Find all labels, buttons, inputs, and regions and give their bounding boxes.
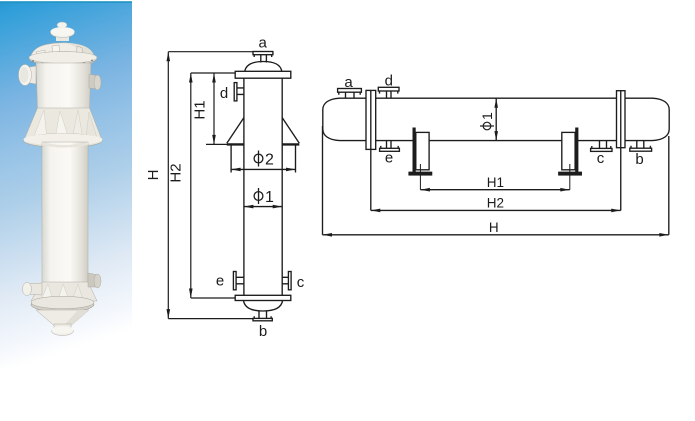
nozzle d flange [378, 87, 399, 91]
dim H1 vertical [213, 73, 215, 144]
dim H1 line [420, 189, 569, 191]
dim H2 bottom connector [191, 297, 235, 299]
nozzle d flange bar [234, 83, 237, 101]
nozzle c flange [591, 148, 612, 151]
flange bolt dots [32, 60, 93, 66]
dim H right extension [668, 136, 670, 235]
arrow phi1 right [273, 205, 283, 209]
arrow H2 top [189, 73, 193, 83]
top dome [245, 62, 282, 72]
svg-text:d: d [385, 73, 393, 90]
left saddle centerline [419, 164, 421, 190]
nozzle a flange [338, 89, 362, 93]
right saddle panel [562, 132, 575, 169]
nozzle b flange [253, 318, 272, 320]
svg-text:2: 2 [265, 152, 274, 169]
dome head [30, 43, 95, 60]
photo background [0, 1, 132, 368]
cone bottom rim [24, 134, 103, 148]
cone ribs [33, 110, 47, 139]
phi2 extension lines [231, 146, 295, 173]
dim H1 bottom extension to cone [206, 143, 227, 145]
arrow H2 right [611, 209, 621, 213]
shell bottom [340, 140, 653, 142]
svg-text:1: 1 [265, 189, 274, 206]
left saddle baseplate [409, 172, 432, 175]
svg-text:H1: H1 [191, 100, 208, 119]
nozzle c stem [282, 277, 288, 284]
arrow H1 right [560, 188, 570, 192]
label phi1 right rotated [479, 112, 495, 130]
arrow H1 left [420, 188, 430, 192]
phi1 dim line [244, 206, 282, 208]
arrow H1 top [212, 73, 216, 83]
body walls [244, 78, 282, 295]
arrow H2 bottom [189, 289, 193, 299]
svg-text:a: a [259, 35, 268, 52]
dim H2 line [371, 209, 621, 211]
dim H2 top connector [191, 72, 235, 74]
svg-text:H: H [145, 170, 162, 181]
top cap flange [56, 33, 69, 41]
nozzle b flange [630, 148, 652, 151]
cone right bottom rim [282, 143, 299, 145]
arrow phi2 left [231, 168, 241, 172]
svg-text:H2: H2 [168, 163, 185, 182]
svg-text:H2: H2 [487, 196, 504, 211]
left head [323, 98, 340, 140]
arrow H right [659, 233, 669, 237]
arrow H1 bottom [212, 135, 216, 145]
bottom foot flange [52, 327, 74, 336]
lower tube [42, 142, 88, 283]
bottom right nozzle [88, 273, 98, 287]
nozzle c stem [600, 141, 607, 149]
phi1 dim vertical [495, 98, 497, 140]
right flange pair [617, 91, 626, 148]
nozzle e flange bar [233, 272, 236, 290]
nozzle d stem [387, 91, 392, 98]
nozzle e flange [380, 148, 400, 151]
arrow H2 left [371, 209, 381, 213]
nozzle a stem [261, 55, 267, 63]
svg-text:b: b [635, 151, 643, 168]
dim H2 left extension [370, 149, 372, 210]
arrow phi2 right [286, 168, 296, 172]
cone left bottom rim [227, 143, 244, 145]
label phi2 [254, 151, 263, 167]
svg-text:c: c [297, 274, 305, 291]
cone right [282, 118, 299, 144]
svg-text:c: c [597, 150, 605, 167]
nozzle c flange bar [288, 272, 291, 290]
bottom flare gussets [31, 282, 97, 301]
svg-text:d: d [220, 85, 228, 102]
left upper nozzle [24, 66, 36, 84]
right saddle centerline [569, 164, 571, 190]
upper body [36, 63, 91, 110]
svg-text:a: a [344, 74, 353, 91]
bottom flange [235, 295, 291, 300]
left flange pair [366, 90, 376, 149]
arrow H top [167, 52, 171, 62]
top tiny nub [57, 22, 67, 28]
photo vessel [19, 22, 103, 336]
nozzle e stem [387, 141, 392, 149]
dim H vertical [167, 52, 169, 319]
dim H bottom connector [168, 318, 253, 320]
bottom left nozzle [27, 283, 42, 295]
right saddle bar [575, 128, 578, 173]
arrow phi1 bottom [494, 131, 498, 141]
dim H2 right extension [620, 148, 622, 211]
dim H line [323, 234, 669, 236]
top flange [235, 71, 291, 78]
right head [653, 98, 670, 140]
phi2 dim line [231, 168, 295, 170]
svg-text:b: b [259, 323, 267, 340]
cone left [227, 118, 244, 144]
bottom cone [36, 310, 89, 326]
bottom stem [54, 324, 71, 330]
nozzle e stem [236, 277, 244, 284]
nozzle a flange [253, 52, 273, 55]
dome gusset lugs [36, 50, 46, 62]
dim H top connector [168, 51, 253, 53]
svg-text:H1: H1 [487, 175, 504, 190]
arrow phi1 left [244, 205, 254, 209]
label phi1 [254, 188, 263, 204]
arrow H bottom [167, 309, 171, 319]
svg-text:1: 1 [479, 112, 495, 120]
arrow phi1 top [494, 98, 498, 108]
nozzle a stem [346, 92, 355, 98]
svg-text:e: e [216, 273, 224, 290]
left saddle panel [416, 132, 429, 169]
nozzle d stem [237, 88, 244, 95]
nozzle b stem [637, 141, 644, 149]
arrow H left [323, 233, 333, 237]
bottom flange ring [31, 297, 94, 312]
top flange ring [29, 52, 97, 66]
left saddle bar [413, 128, 416, 173]
bottom dish [244, 301, 283, 312]
dim H left extension [322, 126, 324, 235]
right upper nozzle [89, 74, 98, 89]
cone skirt [24, 108, 102, 140]
nozzle b stem [259, 311, 267, 318]
shell top [340, 97, 653, 99]
dim H2 vertical [190, 73, 192, 298]
right saddle baseplate [559, 172, 582, 175]
svg-text:H: H [489, 220, 499, 235]
svg-text:e: e [385, 150, 393, 167]
